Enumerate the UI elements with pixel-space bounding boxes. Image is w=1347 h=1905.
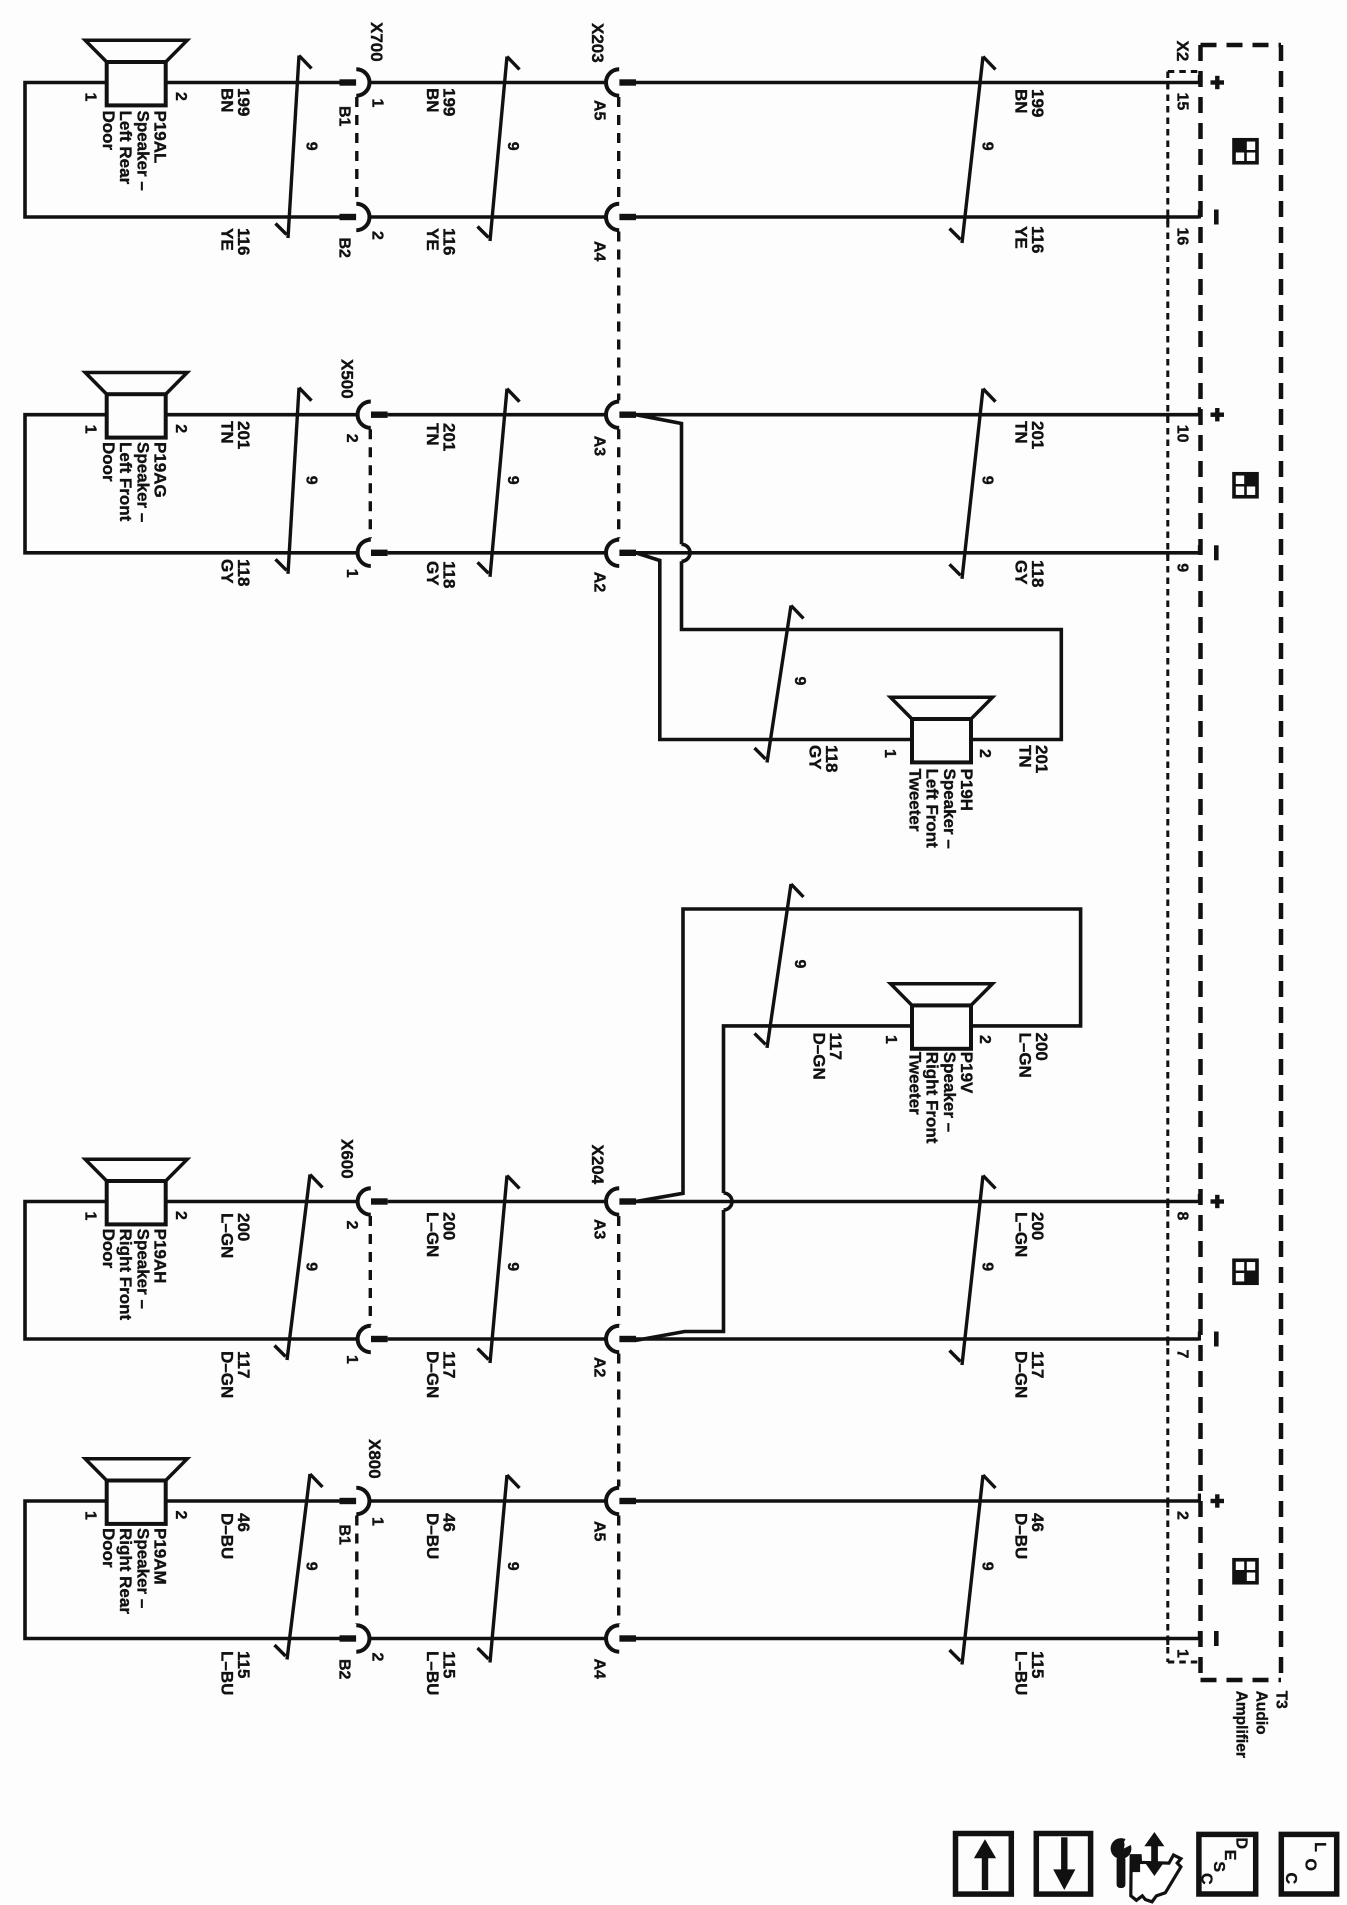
svg-text:9: 9 [791,960,808,969]
svg-text:X2: X2 [1173,41,1192,62]
harness slash 9 [287,1474,310,1660]
svg-text:2: 2 [343,1221,360,1230]
wire P19AM pin1 down and bottom run [25,1501,340,1639]
svg-text:199BN: 199BN [218,88,254,116]
amp + terminal [1211,1499,1225,1503]
connector X700 bottom half [340,214,357,220]
connector X700 dashed body [355,97,358,203]
wire P19AG pin1 down and bottom run [25,415,357,553]
svg-text:1: 1 [82,93,99,102]
speaker position icon TR [1234,474,1257,497]
speaker P19AH Right Front Door [85,1159,187,1181]
harness slash 9 [962,1475,983,1665]
connector X203 pin A5 half [606,69,619,95]
svg-text:9: 9 [791,677,808,686]
connector X204 pin A3 half [606,1188,619,1214]
svg-text:2: 2 [172,1211,189,1220]
svg-text:X700: X700 [367,22,386,62]
svg-text:8: 8 [1174,1212,1191,1221]
speaker P19AL Left Rear Door [85,40,187,62]
svg-text:118GY: 118GY [806,745,842,772]
svg-text:9: 9 [504,142,521,151]
svg-text:1: 1 [82,1212,99,1221]
amp wire end tick pin 16 [1198,210,1201,219]
amp - terminal [1214,1631,1219,1646]
wire 201 to body connector [388,413,606,417]
speaker position icon BR [1234,1260,1257,1283]
connector X500 dashed body [369,429,372,538]
speaker P19H left front tweeter [891,697,993,719]
svg-text:1: 1 [882,1035,899,1044]
amp wire end tick pin 1 [1198,1631,1201,1640]
svg-text:X600: X600 [338,1139,357,1179]
wire 118 to amplifier pin 9 [636,551,1199,555]
harness slash 9 [490,57,507,242]
amp wire end tick pin 7 [1198,1332,1201,1341]
connector X600 bottom half [358,1326,371,1352]
amp + terminal [1211,413,1225,417]
svg-text:15: 15 [1174,93,1191,111]
connector X500 top half [358,402,371,428]
wire 116 to amplifier pin 16 [636,215,1199,219]
harness slash 9 [490,1475,507,1663]
wire P19AL pin1 down and bottom run [25,83,340,218]
svg-text:A3: A3 [591,436,608,457]
svg-text:C: C [1282,1873,1299,1885]
svg-text:1: 1 [82,425,99,434]
svg-text:9: 9 [979,142,996,151]
wire 200 to body connector [388,1200,606,1204]
wire 200 to amplifier pin 8 [636,1200,1199,1204]
svg-text:2: 2 [172,424,189,433]
svg-text:9: 9 [303,142,320,151]
connector X600 dashed body [369,1216,372,1325]
svg-text:D: D [1233,1838,1250,1850]
svg-text:A3: A3 [591,1219,608,1240]
svg-text:A4: A4 [591,1659,608,1680]
X2 pin 7 tick [1166,1339,1169,1346]
svg-text:199BN: 199BN [1012,89,1048,117]
harness slash 9 [288,388,299,574]
harness slash 9 [490,1176,507,1364]
svg-text:9: 9 [1174,563,1191,572]
wire 46 to body connector [370,1499,606,1503]
X2 pin 10 tick [1166,415,1169,422]
svg-text:2: 2 [172,92,189,101]
harness slash 9 tweeter [767,606,791,763]
svg-text:16: 16 [1174,228,1191,246]
svg-text:S: S [1210,1861,1227,1872]
wire P19AL pin1 to pin2 loop left [166,81,340,85]
connector X500 bottom half [358,540,371,566]
svg-text:118GY: 118GY [1012,560,1048,587]
svg-text:A2: A2 [591,1357,608,1378]
svg-text:199BN: 199BN [423,88,459,116]
wire 117 D-GN branch from tweeter P19V to A2 [724,1026,912,1193]
svg-text:A2: A2 [591,572,608,593]
wire 46 to amplifier pin 2 [636,1499,1199,1503]
svg-text:9: 9 [504,1262,521,1271]
icon down arrow box [1036,1834,1090,1895]
wire P19AH pin1 down and bottom run [25,1202,357,1340]
svg-text:2: 2 [343,434,360,443]
svg-text:9: 9 [504,476,521,485]
svg-text:9: 9 [303,1262,320,1271]
connector X203 dashed body [617,97,620,203]
amp - terminal [1214,210,1219,225]
svg-text:1: 1 [881,749,898,758]
svg-text:X204: X204 [588,1145,607,1185]
wire 116 to body connector [370,215,606,219]
connector X600 top half [358,1188,371,1214]
amp wire end tick pin 9 [1198,545,1201,554]
svg-text:2: 2 [976,749,993,758]
svg-text:X500: X500 [338,359,357,399]
wire P19AG pin1 to pin2 loop left [166,413,358,417]
X2 pin 8 tick [1166,1202,1169,1209]
svg-text:1: 1 [1174,1649,1191,1658]
svg-text:9: 9 [979,1562,996,1571]
wire 201 TN branch from A3 to tweeter P19H [636,415,682,545]
harness slash 9 [962,1176,983,1366]
connector X700 top half [340,79,357,85]
speaker P19AM Right Rear Door [85,1459,187,1481]
harness slash 9 [288,56,299,239]
wire 118 to body connector [388,551,606,555]
wire 200 L-GN branch from A3 to tweeter P19V [636,909,1081,1202]
svg-text:2: 2 [369,1653,386,1662]
svg-text:1: 1 [369,99,386,108]
svg-text:O: O [1301,1859,1318,1871]
icon wrench with arrows [1131,1855,1181,1902]
amp wire end tick pin 2 [1198,1494,1201,1503]
svg-text:9: 9 [303,1562,320,1571]
amp + terminal [1211,1199,1225,1203]
wire P19AM pin1 to pin2 loop left [166,1499,340,1503]
svg-text:118GY: 118GY [423,561,459,588]
connector X204 pin A4 half [606,1625,619,1651]
connector X203 pin A3 half [606,402,619,428]
svg-text:2: 2 [369,231,386,240]
svg-text:X800: X800 [365,1439,384,1479]
svg-text:B2: B2 [336,238,353,259]
svg-text:C: C [1198,1873,1215,1885]
svg-text:B1: B1 [336,1525,353,1546]
X2 pin 16 tick [1166,217,1169,224]
speaker position icon BL [1234,1560,1257,1583]
amp wire end tick pin 8 [1198,1194,1201,1203]
connector X204 dashed body [617,1216,620,1325]
wire 117 to amplifier pin 7 [636,1337,1199,1341]
amplifier T3 dashed box [1201,43,1282,48]
wire 115 to body connector [370,1637,606,1641]
icon DESC box [1199,1834,1256,1894]
connector X800 dashed body [355,1516,358,1625]
connector X2 line [1166,72,1169,1663]
connector X204 pin A5 half [606,1488,619,1514]
connector X800 bottom half [340,1635,357,1641]
X2 pin 1 tick [1166,1639,1169,1646]
connector X203 pin A2 half [606,540,619,566]
harness slash 9 [962,57,983,244]
speaker P19V right front tweeter [891,984,993,1006]
X2 pin 2 tick [1166,1501,1169,1508]
svg-text:A5: A5 [591,100,608,121]
connector X204 pin A2 half [606,1326,619,1352]
svg-text:9: 9 [979,476,996,485]
svg-text:1: 1 [343,1355,360,1364]
wire 199 to body connector [370,81,606,85]
connector X800 top half [340,1498,357,1504]
wire 115 to amplifier pin 1 [636,1637,1199,1641]
harness slash 9 tweeter [767,884,791,1048]
svg-text:X203: X203 [588,23,607,63]
svg-text:2: 2 [172,1511,189,1520]
svg-text:9: 9 [504,1562,521,1571]
svg-text:A4: A4 [591,241,608,262]
svg-text:B2: B2 [336,1659,353,1680]
svg-text:10: 10 [1174,425,1191,443]
svg-text:2: 2 [1174,1511,1191,1520]
svg-text:2: 2 [976,1035,993,1044]
svg-text:1: 1 [343,569,360,578]
icon LOC box [1281,1834,1336,1894]
svg-text:L: L [1311,1842,1328,1852]
svg-text:B1: B1 [336,106,353,127]
amp - terminal [1214,1332,1219,1347]
X2 pin 15 tick [1166,83,1169,90]
wire 201 to amplifier pin 10 [636,413,1199,417]
amp + terminal [1211,80,1225,84]
harness slash 9 [490,389,507,577]
connector X203 pin A4 half [606,204,619,230]
wire 118 GY branch from A2 to tweeter P19H [636,553,912,740]
harness slash 9 [962,389,983,579]
svg-text:A5: A5 [591,1521,608,1542]
wire P19AH pin1 to pin2 loop left [166,1200,358,1204]
svg-text:7: 7 [1174,1350,1191,1359]
amp - terminal [1214,545,1219,560]
icon up arrow box [956,1834,1012,1895]
svg-text:1: 1 [82,1511,99,1520]
wire 117 to body connector [388,1337,606,1341]
svg-text:1: 1 [369,1517,386,1526]
svg-text:E: E [1221,1850,1238,1861]
amp wire end tick pin 15 [1198,75,1201,84]
harness slash 9 [287,1175,310,1361]
speaker P19AG Left Front Door [85,373,187,395]
X2 pin 9 tick [1166,553,1169,560]
svg-text:9: 9 [979,1262,996,1271]
svg-text:9: 9 [303,476,320,485]
wire 199 to amplifier pin 15 [636,81,1199,85]
svg-text:118GY: 118GY [218,559,254,586]
amp wire end tick pin 10 [1198,407,1201,416]
speaker position icon TL [1234,140,1257,163]
